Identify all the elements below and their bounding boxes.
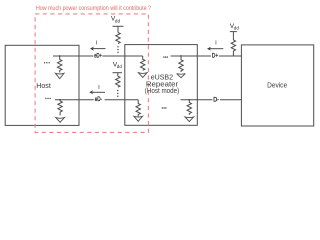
wire D- from repeater to device (181, 99, 242, 101)
ground arrow repeater D- pulldown (185, 117, 194, 122)
resistor eD+ pull-up (116, 33, 120, 44)
svg-text:Device: Device (267, 82, 287, 90)
resistor device D+ pull-up (231, 40, 235, 56)
dotted continuation to eD+ wire (117, 46, 118, 53)
resistor host D+ pulldown (58, 56, 62, 72)
repeater internal eD- pulldown: wire turn (136, 100, 140, 116)
dotted continuation to eD- wire (117, 90, 118, 97)
current arrow I (eD+) (90, 47, 94, 51)
svg-text:dd: dd (115, 18, 121, 23)
current arrow I (D+) (207, 47, 211, 51)
repeater internal eD+ pulldown: wire turn (141, 56, 145, 70)
ground arrow repeater eD- pulldown (134, 116, 143, 121)
ellipsis continuation in repeater (D+) (163, 56, 168, 57)
svg-text:D-: D- (213, 96, 219, 103)
node junction host D- pulldown (59, 99, 61, 101)
label eD- (94, 96, 105, 102)
node junction repeater D- pulldown (188, 99, 190, 101)
svg-text:eD+: eD+ (94, 53, 102, 60)
ground arrow repeater eD+ pulldown (138, 73, 147, 78)
wire eD- from host to repeater internal pulldown (55, 99, 138, 101)
Device box (241, 45, 313, 126)
svg-text:dd: dd (234, 26, 240, 31)
label D- (212, 96, 220, 102)
label D+ (211, 52, 219, 58)
resistor repeater D- pulldown (187, 100, 191, 115)
svg-text:eD-: eD- (95, 96, 102, 103)
ellipsis continuation in repeater (D-) (162, 107, 167, 108)
node junction repeater D+ pulldown (180, 55, 182, 57)
svg-text:(Host mode): (Host mode) (145, 86, 179, 95)
svg-text:D+: D+ (212, 53, 219, 60)
resistor host D- pulldown (58, 100, 62, 116)
svg-text:How much power consumption wil: How much power consumption will it contr… (36, 5, 151, 12)
current arrow I (eD-) (89, 90, 93, 94)
eUSB2 Repeater box (125, 45, 198, 126)
power rail bar and stem (eD+ pull-up) (113, 25, 124, 27)
node junction host D+ pulldown (59, 55, 61, 57)
ellipsis continuation in host (top) (44, 62, 50, 63)
resistor repeater D+ pulldown (179, 56, 183, 72)
ellipsis continuation in host (bottom) (45, 98, 51, 99)
Host box (5, 45, 79, 125)
svg-text:dd: dd (117, 64, 123, 69)
ground arrow host D- pulldown (56, 118, 65, 123)
red dashed highlight box (35, 14, 148, 132)
wire D+ from repeater to device (171, 55, 242, 57)
power rail bar and stem (eD- pull-up) (113, 72, 123, 74)
ground arrow repeater D+ pulldown (177, 74, 186, 78)
svg-text:Host: Host (36, 82, 51, 90)
resistor eD- pull-up (116, 76, 120, 87)
wire eD+ from host to repeater internal pulldown (53, 55, 143, 57)
ground arrow host D+ pulldown (55, 73, 64, 78)
power rail bar and stem (device D+ pull-up) (230, 31, 237, 33)
label eD+ (93, 52, 102, 58)
